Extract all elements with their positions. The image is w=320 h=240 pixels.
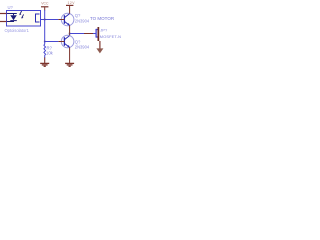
power port VCC (left) [41,1,49,10]
wire Q2 emitter down to ground [69,47,71,63]
svg-text:U?: U? [8,5,14,10]
resistor R? 10k [44,42,54,59]
ground GND1 (below resistor) [40,58,49,67]
power port 12V (above Q1) [66,1,75,13]
svg-text:TO MOTOR: TO MOTOR [90,16,115,21]
svg-text:MOSFET-N: MOSFET-N [100,34,121,39]
background [0,0,121,73]
transistor Q1 (2N3904, top) [58,13,74,26]
wire VCC down to node [44,10,46,20]
svg-text:12V: 12V [68,1,76,5]
transistor Q2 (2N3904, bottom) [58,35,74,48]
LED inside optoisolator [7,14,17,22]
wire node down to R node [44,20,46,42]
power port arrow (down) below connector [96,41,103,53]
svg-text:JP?: JP? [100,27,108,32]
svg-text:VCC: VCC [41,1,49,5]
svg-text:Optoisolator1: Optoisolator1 [5,28,30,33]
svg-text:2N3904: 2N3904 [75,18,90,23]
connector pin (maroon segment) [84,33,93,35]
wire motor node to connector [70,33,84,35]
junction at motor node [69,33,71,35]
junction at VCC / base node [44,19,46,21]
svg-text:2N3904: 2N3904 [75,45,90,50]
phototransistor inside optoisolator [36,14,40,23]
pin 1 (LED anode, left top) [0,13,7,15]
Q1 base pin [58,19,64,21]
connector fanout [96,29,98,38]
wire motor node down to Q2 collector [69,34,71,37]
svg-text:10k: 10k [46,51,54,56]
svg-text:Q?: Q? [75,13,81,18]
ground GND2 (below Q2) [65,63,74,66]
pin 2 (LED cathode, left bottom) [0,21,7,23]
Q2 base pin [58,41,64,43]
junction at R / Q2 base node [44,41,46,43]
wire Q1 emitter down to motor node [69,25,71,33]
wire into connector split [93,33,96,35]
photon arrows [20,11,24,18]
connector J? body bar [98,27,100,41]
optoisolator U? body [7,11,41,27]
wire R node to Q2 base [45,41,59,43]
wire from optoisolator pin to Q1 base node [41,19,58,21]
